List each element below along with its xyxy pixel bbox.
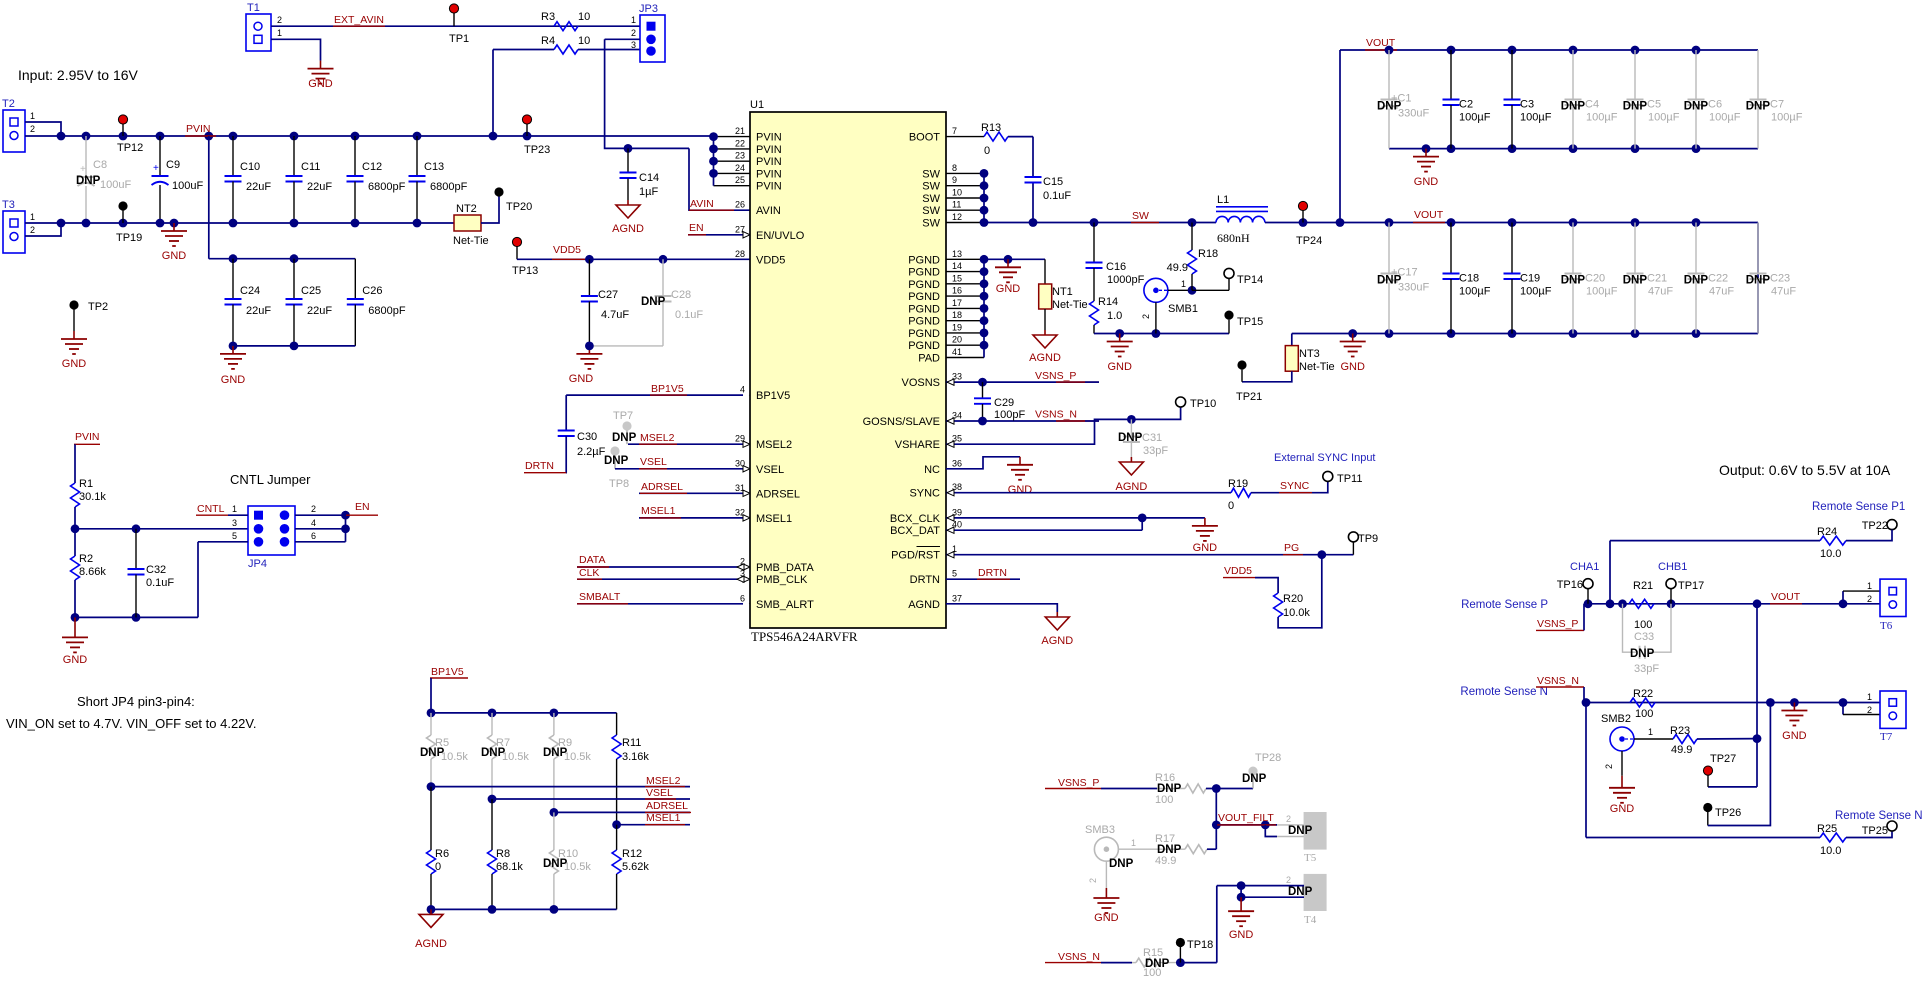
svg-text:VIN_ON set to 4.7V. VIN_OFF se: VIN_ON set to 4.7V. VIN_OFF set to 4.22V… <box>6 716 257 731</box>
svg-text:10: 10 <box>578 11 590 23</box>
svg-text:2: 2 <box>631 28 636 38</box>
svg-text:C9: C9 <box>166 159 180 171</box>
svg-text:1: 1 <box>1181 279 1186 289</box>
svg-text:GND: GND <box>221 374 246 386</box>
svg-text:27: 27 <box>735 224 745 234</box>
svg-text:1: 1 <box>277 28 282 38</box>
svg-text:10.0: 10.0 <box>1820 845 1841 857</box>
svg-text:R18: R18 <box>1198 248 1218 260</box>
svg-text:2: 2 <box>1867 705 1872 715</box>
svg-text:68.1k: 68.1k <box>496 861 523 873</box>
svg-text:5: 5 <box>952 569 957 579</box>
svg-text:VOSNS: VOSNS <box>901 377 940 389</box>
svg-text:DNP: DNP <box>1623 101 1648 113</box>
svg-text:R19: R19 <box>1228 478 1248 490</box>
svg-text:DNP: DNP <box>1746 101 1771 113</box>
svg-text:TP20: TP20 <box>506 201 532 213</box>
svg-text:16: 16 <box>952 286 962 296</box>
svg-text:10.5k: 10.5k <box>502 751 529 763</box>
svg-text:100µF: 100µF <box>1586 112 1618 124</box>
svg-text:BP1V5: BP1V5 <box>651 383 684 395</box>
svg-text:VSEL: VSEL <box>756 464 784 476</box>
svg-text:C20: C20 <box>1585 273 1605 285</box>
svg-text:MSEL2: MSEL2 <box>646 775 681 787</box>
svg-text:7: 7 <box>952 126 957 136</box>
svg-text:ADRSEL: ADRSEL <box>646 800 688 812</box>
svg-text:100µF: 100µF <box>1771 112 1803 124</box>
svg-text:NC: NC <box>924 464 940 476</box>
svg-text:PMB_CLK: PMB_CLK <box>756 574 808 586</box>
svg-text:330uF: 330uF <box>1398 282 1429 294</box>
svg-text:9: 9 <box>952 175 957 185</box>
svg-text:R21: R21 <box>1633 580 1653 592</box>
svg-text:R1: R1 <box>79 478 93 490</box>
svg-text:0.1uF: 0.1uF <box>146 577 174 589</box>
svg-text:VSEL: VSEL <box>646 787 673 799</box>
svg-text:10.5k: 10.5k <box>441 751 468 763</box>
svg-text:0.1uF: 0.1uF <box>675 309 703 321</box>
svg-text:C12: C12 <box>362 161 382 173</box>
svg-text:GND: GND <box>1340 361 1365 373</box>
svg-text:TP19: TP19 <box>116 232 142 244</box>
svg-text:4: 4 <box>311 518 316 528</box>
svg-text:T2: T2 <box>2 98 15 110</box>
svg-text:AGND: AGND <box>415 938 447 950</box>
svg-text:ADRSEL: ADRSEL <box>641 481 683 493</box>
svg-text:12: 12 <box>952 212 962 222</box>
svg-text:Output: 0.6V to 5.5V at 10A: Output: 0.6V to 5.5V at 10A <box>1719 462 1891 478</box>
svg-text:TP17: TP17 <box>1678 580 1704 592</box>
svg-text:10.5k: 10.5k <box>564 861 591 873</box>
svg-text:NT3: NT3 <box>1299 348 1320 360</box>
svg-text:30.1k: 30.1k <box>79 491 106 503</box>
svg-text:0: 0 <box>1228 500 1234 512</box>
svg-text:15: 15 <box>952 273 962 283</box>
svg-text:37: 37 <box>952 593 962 603</box>
svg-text:C8: C8 <box>93 159 107 171</box>
svg-text:C4: C4 <box>1585 99 1599 111</box>
svg-text:13: 13 <box>952 249 962 259</box>
svg-text:C14: C14 <box>639 172 659 184</box>
svg-text:PGND: PGND <box>908 291 940 303</box>
svg-text:100µF: 100µF <box>1586 286 1618 298</box>
svg-text:JP3: JP3 <box>639 3 658 15</box>
svg-text:R3: R3 <box>541 11 555 23</box>
svg-text:31: 31 <box>735 483 745 493</box>
svg-text:C10: C10 <box>240 161 260 173</box>
svg-text:PG: PG <box>1284 542 1299 554</box>
svg-text:TP23: TP23 <box>524 144 550 156</box>
svg-text:Net-Tie: Net-Tie <box>453 235 489 247</box>
svg-text:100pF: 100pF <box>994 409 1025 421</box>
svg-text:PVIN: PVIN <box>186 123 211 135</box>
svg-text:T3: T3 <box>2 199 15 211</box>
svg-text:2: 2 <box>740 557 745 567</box>
svg-text:AVIN: AVIN <box>690 198 714 210</box>
svg-text:49.9: 49.9 <box>1671 744 1692 756</box>
svg-text:R23: R23 <box>1670 725 1690 737</box>
svg-text:TP13: TP13 <box>512 265 538 277</box>
svg-text:47uF: 47uF <box>1648 286 1673 298</box>
svg-text:47uF: 47uF <box>1709 286 1734 298</box>
svg-text:TP18: TP18 <box>1187 939 1213 951</box>
svg-text:DNP: DNP <box>612 432 637 444</box>
svg-text:T1: T1 <box>247 2 260 14</box>
svg-text:0: 0 <box>435 861 441 873</box>
svg-text:Input: 2.95V to 16V: Input: 2.95V to 16V <box>18 67 139 83</box>
svg-text:25: 25 <box>735 175 745 185</box>
svg-text:NT2: NT2 <box>456 203 477 215</box>
svg-text:JP4: JP4 <box>248 558 267 570</box>
svg-text:VDD5: VDD5 <box>756 254 785 266</box>
svg-text:22uF: 22uF <box>246 305 271 317</box>
svg-text:SW: SW <box>922 205 940 217</box>
svg-text:TP11: TP11 <box>1337 473 1362 485</box>
svg-text:100uF: 100uF <box>172 180 203 192</box>
svg-text:TP2: TP2 <box>88 301 108 313</box>
svg-text:C26: C26 <box>362 285 382 297</box>
svg-text:DNP: DNP <box>1684 275 1709 287</box>
svg-text:TP15: TP15 <box>1237 316 1263 328</box>
svg-text:1: 1 <box>1867 581 1872 591</box>
svg-text:C30: C30 <box>577 431 597 443</box>
svg-text:PVIN: PVIN <box>756 132 782 144</box>
svg-text:Remote Sense P1: Remote Sense P1 <box>1812 501 1905 513</box>
svg-text:SW: SW <box>922 218 940 230</box>
svg-text:CNTL Jumper: CNTL Jumper <box>230 472 311 487</box>
svg-text:R14: R14 <box>1098 296 1118 308</box>
svg-text:680nH: 680nH <box>1217 231 1250 245</box>
svg-text:SMB2: SMB2 <box>1601 713 1631 725</box>
svg-text:PVIN: PVIN <box>75 431 100 443</box>
svg-text:CHA1: CHA1 <box>1570 561 1599 573</box>
svg-text:49.9: 49.9 <box>1155 855 1176 867</box>
svg-text:11: 11 <box>952 200 961 210</box>
svg-text:SMB1: SMB1 <box>1168 303 1198 315</box>
svg-text:C3: C3 <box>1520 99 1534 111</box>
svg-text:DNP: DNP <box>1561 101 1586 113</box>
svg-text:L1: L1 <box>1217 194 1229 206</box>
svg-text:C7: C7 <box>1770 99 1784 111</box>
svg-text:100µF: 100µF <box>1520 112 1552 124</box>
svg-text:C19: C19 <box>1520 273 1540 285</box>
svg-text:2: 2 <box>1286 875 1291 885</box>
svg-text:PGND: PGND <box>908 316 940 328</box>
svg-text:GND: GND <box>569 373 594 385</box>
svg-text:DRTN: DRTN <box>978 567 1007 579</box>
svg-text:330uF: 330uF <box>1398 108 1429 120</box>
svg-text:41: 41 <box>952 347 962 357</box>
svg-text:0.1uF: 0.1uF <box>1043 190 1071 202</box>
svg-text:1: 1 <box>631 15 636 25</box>
svg-text:C22: C22 <box>1708 273 1728 285</box>
svg-text:DNP: DNP <box>641 296 666 308</box>
svg-text:C21: C21 <box>1647 273 1667 285</box>
svg-text:T7: T7 <box>1880 731 1893 743</box>
svg-text:1µF: 1µF <box>639 186 658 198</box>
svg-text:DNP: DNP <box>1623 275 1648 287</box>
svg-text:1: 1 <box>30 111 35 121</box>
svg-text:DNP: DNP <box>1109 858 1134 870</box>
svg-text:Short JP4 pin3-pin4:: Short JP4 pin3-pin4: <box>77 694 195 709</box>
svg-text:10: 10 <box>578 35 590 47</box>
svg-text:6800pF: 6800pF <box>368 181 406 193</box>
svg-text:4.7uF: 4.7uF <box>601 309 629 321</box>
svg-text:NT1: NT1 <box>1052 286 1073 298</box>
svg-text:GND: GND <box>1229 929 1254 941</box>
svg-text:PGND: PGND <box>908 279 940 291</box>
svg-text:DNP: DNP <box>604 455 629 467</box>
svg-text:BP1V5: BP1V5 <box>756 390 790 402</box>
svg-text:VDD5: VDD5 <box>553 244 581 256</box>
svg-text:100: 100 <box>1143 967 1161 977</box>
svg-text:5: 5 <box>232 531 237 541</box>
svg-text:3: 3 <box>631 40 636 50</box>
svg-text:T5: T5 <box>1304 852 1317 864</box>
svg-text:EN/UVLO: EN/UVLO <box>756 230 805 242</box>
svg-text:Remote Sense N: Remote Sense N <box>1460 686 1548 698</box>
svg-text:8.66k: 8.66k <box>79 566 106 578</box>
svg-text:8: 8 <box>952 163 957 173</box>
svg-text:10.0k: 10.0k <box>1283 607 1310 619</box>
svg-text:33pF: 33pF <box>1143 445 1168 457</box>
svg-text:5.62k: 5.62k <box>622 861 649 873</box>
svg-text:VSNS_N: VSNS_N <box>1537 675 1579 687</box>
svg-text:TP8: TP8 <box>609 478 629 490</box>
svg-text:1000pF: 1000pF <box>1107 274 1145 286</box>
svg-text:PGND: PGND <box>908 328 940 340</box>
svg-text:23: 23 <box>735 151 745 161</box>
svg-text:3: 3 <box>740 569 745 579</box>
svg-text:EN: EN <box>689 222 704 234</box>
svg-text:DNP: DNP <box>1242 773 1267 785</box>
svg-text:100µF: 100µF <box>1709 112 1741 124</box>
svg-text:DRTN: DRTN <box>525 460 554 472</box>
svg-text:ADRSEL: ADRSEL <box>756 488 800 500</box>
svg-text:MSEL1: MSEL1 <box>646 812 681 824</box>
svg-text:PGND: PGND <box>908 254 940 266</box>
svg-text:BP1V5: BP1V5 <box>431 666 464 678</box>
svg-text:36: 36 <box>952 458 962 468</box>
svg-text:PAD: PAD <box>918 353 940 365</box>
svg-text:GND: GND <box>1107 361 1132 373</box>
svg-text:GND: GND <box>1782 730 1807 742</box>
svg-text:100: 100 <box>1635 708 1653 720</box>
svg-text:DATA: DATA <box>579 554 605 566</box>
svg-text:SMBALT: SMBALT <box>579 591 621 603</box>
svg-text:28: 28 <box>735 249 745 259</box>
svg-text:3.16k: 3.16k <box>622 751 649 763</box>
svg-text:C28: C28 <box>671 289 691 301</box>
svg-text:C31: C31 <box>1142 432 1162 444</box>
svg-text:C33: C33 <box>1634 631 1654 643</box>
svg-text:T6: T6 <box>1880 620 1893 632</box>
svg-text:GND: GND <box>996 283 1021 295</box>
svg-text:20: 20 <box>952 335 962 345</box>
svg-text:Remote Sense N1: Remote Sense N1 <box>1835 810 1922 822</box>
svg-text:18: 18 <box>952 310 962 320</box>
svg-text:C25: C25 <box>301 285 321 297</box>
svg-text:22uF: 22uF <box>307 181 332 193</box>
svg-text:TP1: TP1 <box>449 33 469 45</box>
svg-text:GND: GND <box>62 358 87 370</box>
svg-text:22: 22 <box>735 138 745 148</box>
svg-text:1: 1 <box>232 504 237 514</box>
svg-text:2: 2 <box>1867 594 1872 604</box>
svg-text:PGND: PGND <box>908 267 940 279</box>
svg-text:Remote Sense P: Remote Sense P <box>1461 599 1548 611</box>
svg-text:VSNS_P: VSNS_P <box>1035 370 1076 382</box>
svg-text:GOSNS/SLAVE: GOSNS/SLAVE <box>863 416 940 428</box>
svg-text:BCX_CLK: BCX_CLK <box>890 513 941 525</box>
svg-text:EN: EN <box>355 501 370 513</box>
svg-text:6: 6 <box>740 593 745 603</box>
svg-text:GND: GND <box>1094 912 1119 924</box>
svg-text:AGND: AGND <box>1029 352 1061 364</box>
svg-text:C6: C6 <box>1708 99 1722 111</box>
svg-text:2: 2 <box>1088 878 1098 883</box>
svg-text:6800pF: 6800pF <box>430 181 468 193</box>
svg-text:R25: R25 <box>1817 823 1837 835</box>
svg-text:TP22: TP22 <box>1862 520 1888 532</box>
svg-text:100µF: 100µF <box>1459 286 1491 298</box>
svg-text:AGND: AGND <box>908 599 940 611</box>
svg-text:R6: R6 <box>435 848 449 860</box>
svg-text:17: 17 <box>952 298 962 308</box>
svg-text:DNP: DNP <box>1746 275 1771 287</box>
svg-text:R11: R11 <box>622 737 641 749</box>
svg-text:1: 1 <box>1131 838 1136 848</box>
svg-text:SYNC: SYNC <box>1280 480 1310 492</box>
svg-text:3: 3 <box>232 518 237 528</box>
svg-text:TP28: TP28 <box>1255 752 1281 764</box>
svg-text:BCX_DAT: BCX_DAT <box>890 525 940 537</box>
svg-text:2: 2 <box>30 124 35 134</box>
svg-text:AGND: AGND <box>1041 635 1073 647</box>
svg-text:EXT_AVIN: EXT_AVIN <box>334 14 384 26</box>
svg-text:C15: C15 <box>1043 176 1063 188</box>
svg-text:100µF: 100µF <box>1648 112 1680 124</box>
svg-text:24: 24 <box>735 163 745 173</box>
svg-text:Net-Tie: Net-Tie <box>1052 299 1088 311</box>
svg-text:TP25: TP25 <box>1862 825 1888 837</box>
svg-text:30: 30 <box>735 458 745 468</box>
svg-text:SYNC: SYNC <box>909 488 940 500</box>
svg-text:VSNS_P: VSNS_P <box>1058 777 1099 789</box>
svg-text:TP26: TP26 <box>1715 807 1741 819</box>
svg-text:CHB1: CHB1 <box>1658 561 1687 573</box>
svg-text:MSEL2: MSEL2 <box>756 439 792 451</box>
svg-text:C23: C23 <box>1770 273 1790 285</box>
svg-text:2: 2 <box>277 15 282 25</box>
svg-text:TP24: TP24 <box>1296 235 1322 247</box>
svg-text:SW: SW <box>922 193 940 205</box>
svg-text:2: 2 <box>1286 814 1291 824</box>
svg-text:U1: U1 <box>750 99 764 111</box>
svg-text:47uF: 47uF <box>1771 286 1796 298</box>
svg-text:PVIN: PVIN <box>756 168 782 180</box>
svg-text:TP21: TP21 <box>1236 391 1262 403</box>
svg-text:2: 2 <box>1604 764 1614 769</box>
svg-text:100: 100 <box>1634 619 1652 631</box>
svg-text:26: 26 <box>735 200 745 210</box>
svg-text:100µF: 100µF <box>1520 286 1552 298</box>
svg-text:2: 2 <box>1141 314 1151 319</box>
svg-text:100uF: 100uF <box>100 179 131 191</box>
svg-text:6: 6 <box>311 531 316 541</box>
svg-text:MSEL2: MSEL2 <box>640 432 675 444</box>
svg-text:1: 1 <box>30 212 35 222</box>
svg-text:External SYNC Input: External SYNC Input <box>1274 452 1376 464</box>
svg-text:VSHARE: VSHARE <box>895 439 940 451</box>
svg-text:14: 14 <box>952 261 962 271</box>
svg-text:29: 29 <box>735 434 745 444</box>
svg-text:GND: GND <box>162 250 187 262</box>
svg-text:R12: R12 <box>622 848 642 860</box>
svg-text:DNP: DNP <box>76 175 101 187</box>
svg-text:R20: R20 <box>1283 593 1303 605</box>
svg-text:CLK: CLK <box>579 567 599 579</box>
svg-text:GND: GND <box>1193 542 1218 554</box>
svg-text:C2: C2 <box>1459 99 1473 111</box>
svg-text:VSNS_N: VSNS_N <box>1058 951 1100 963</box>
svg-text:R24: R24 <box>1817 526 1837 538</box>
svg-text:0: 0 <box>984 145 990 157</box>
svg-text:Net-Tie: Net-Tie <box>1299 361 1335 373</box>
svg-text:+: + <box>80 164 86 175</box>
svg-text:TP12: TP12 <box>117 142 143 154</box>
svg-text:AGND: AGND <box>612 223 644 235</box>
svg-text:MSEL1: MSEL1 <box>641 505 676 517</box>
svg-text:10: 10 <box>952 188 962 198</box>
svg-text:T4: T4 <box>1304 914 1317 926</box>
svg-text:TP27: TP27 <box>1710 753 1736 765</box>
svg-text:1: 1 <box>1648 727 1653 737</box>
svg-text:R2: R2 <box>79 553 93 565</box>
svg-text:TP10: TP10 <box>1190 398 1216 410</box>
svg-text:TP9: TP9 <box>1358 533 1378 545</box>
svg-text:21: 21 <box>735 126 745 136</box>
svg-text:VSNS_P: VSNS_P <box>1537 618 1578 630</box>
svg-text:DRTN: DRTN <box>910 574 940 586</box>
svg-text:MSEL1: MSEL1 <box>756 513 792 525</box>
svg-text:10.0: 10.0 <box>1820 548 1841 560</box>
svg-text:DNP: DNP <box>1630 648 1655 660</box>
svg-text:22uF: 22uF <box>307 305 332 317</box>
svg-text:SMB_ALRT: SMB_ALRT <box>756 599 814 611</box>
svg-text:GND: GND <box>1610 803 1635 815</box>
svg-text:2: 2 <box>311 504 316 514</box>
svg-text:C24: C24 <box>240 285 260 297</box>
svg-text:GND: GND <box>1414 176 1439 188</box>
svg-text:100: 100 <box>1155 794 1173 806</box>
svg-text:19: 19 <box>952 322 962 332</box>
svg-text:C16: C16 <box>1106 261 1126 273</box>
svg-text:TP14: TP14 <box>1237 274 1263 286</box>
svg-text:GND: GND <box>1008 484 1033 496</box>
svg-text:AVIN: AVIN <box>756 205 781 217</box>
svg-text:6800pF: 6800pF <box>368 305 406 317</box>
svg-text:C32: C32 <box>146 564 166 576</box>
svg-text:2.2µF: 2.2µF <box>577 446 606 458</box>
svg-text:VDD5: VDD5 <box>1224 565 1252 577</box>
svg-text:33pF: 33pF <box>1634 663 1659 675</box>
svg-text:VSNS_N: VSNS_N <box>1035 409 1077 421</box>
svg-text:DNP: DNP <box>1118 432 1143 444</box>
svg-text:1: 1 <box>1867 692 1872 702</box>
svg-text:SMB3: SMB3 <box>1085 824 1115 836</box>
svg-text:10.5k: 10.5k <box>564 751 591 763</box>
